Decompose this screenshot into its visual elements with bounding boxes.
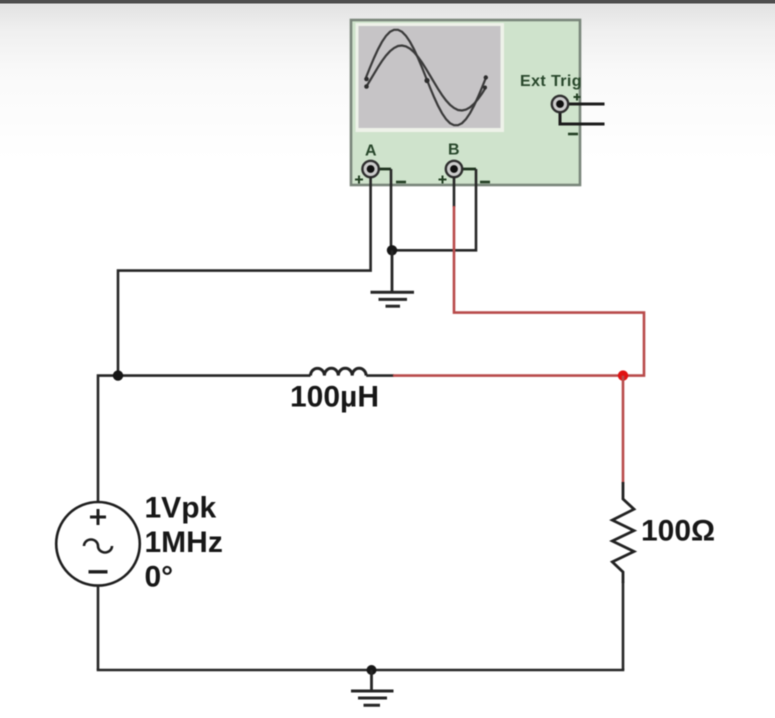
terminal B xyxy=(439,161,491,184)
wire scope B+ stub (black) xyxy=(453,177,456,207)
svg-text:100µH: 100µH xyxy=(290,381,379,414)
svg-text:100Ω: 100Ω xyxy=(641,515,715,548)
label B xyxy=(448,142,460,159)
AC source V1 xyxy=(56,502,140,586)
resistor R1 xyxy=(612,482,634,583)
ground GND1 xyxy=(371,292,415,306)
ground GND2 xyxy=(351,691,394,705)
scope trace channel A (large sine) xyxy=(366,30,486,125)
label A xyxy=(365,143,377,160)
wire ground stub xyxy=(391,250,394,291)
terminal A xyxy=(355,161,406,184)
node source/inductor junction xyxy=(113,370,123,380)
label Ext Trig xyxy=(520,73,582,90)
svg-text:A: A xyxy=(365,143,377,160)
wire source to bottom rail xyxy=(97,586,100,671)
node bottom ground junction xyxy=(367,665,377,675)
wire node 2 to resistor (red) xyxy=(622,376,625,483)
wire scope A- to ground junction xyxy=(390,169,393,250)
Ext Trig terminal xyxy=(552,94,605,135)
wire scope A+ to source node xyxy=(118,177,371,376)
inductor L1 xyxy=(311,368,395,375)
wire inductor to node 2 (red) xyxy=(393,374,623,377)
node 2 junction (red) xyxy=(618,370,628,380)
label 100µH xyxy=(290,381,379,414)
svg-text:1Vpk: 1Vpk xyxy=(145,492,217,525)
node ground junction xyxy=(387,245,397,255)
wire source to inductor xyxy=(98,376,311,502)
oscilloscope screen xyxy=(356,23,505,132)
label 1Vpk 1MHz 0° xyxy=(145,492,223,594)
wire scope B- to ground junction xyxy=(392,169,476,250)
label 100Ω xyxy=(641,515,715,548)
trace start markers xyxy=(364,75,488,89)
wire scope B+ to node 2 (red) xyxy=(454,206,644,376)
svg-text:B: B xyxy=(448,142,460,159)
wire resistor to bottom xyxy=(622,582,625,670)
scope trace channel B (small sine) xyxy=(366,46,486,111)
svg-text:Ext Trig: Ext Trig xyxy=(520,73,582,90)
oscilloscope XSC1 body xyxy=(351,20,580,185)
svg-text:0°: 0° xyxy=(145,561,174,594)
wire bottom ground stub xyxy=(370,670,373,690)
wire bottom rail xyxy=(97,669,625,672)
svg-text:1MHz: 1MHz xyxy=(145,526,223,559)
